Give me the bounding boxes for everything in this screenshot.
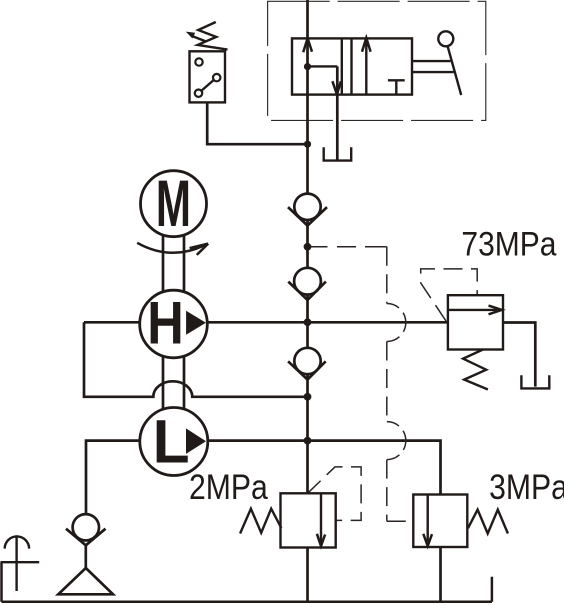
wire: main line below 2MPa valve <box>306 548 309 602</box>
node: pressure switch junction <box>304 141 311 148</box>
svg-text:H: H <box>147 290 184 357</box>
motor M <box>141 171 207 237</box>
node: H line junction <box>304 318 312 326</box>
suction strainer <box>58 568 113 594</box>
pressure switch electric zigzag arrow <box>198 22 228 50</box>
wire: 3MPa valve drain <box>439 547 442 602</box>
wire: L pump suction line <box>86 441 140 515</box>
tank symbol at 73MPa outlet <box>521 375 549 388</box>
pressure switch PS <box>190 51 226 102</box>
valve position 2: blocked port T <box>388 80 405 94</box>
wire: pressure switch drop line <box>207 102 307 144</box>
lever actuator <box>412 61 454 72</box>
pump H (high pressure) <box>140 290 208 358</box>
node: H loop junction <box>304 393 312 401</box>
tank symbol under valve <box>324 147 352 160</box>
pilot line (dashed) of 2MPa valve <box>307 467 361 521</box>
valve position 2: up arrow <box>365 40 367 95</box>
wire: check valve to strainer <box>84 545 87 568</box>
svg-text:M: M <box>156 166 191 240</box>
svg-text:L: L <box>153 408 190 476</box>
wire: H pump outlet to main line and 73MPa valve inlet <box>84 321 448 324</box>
node: pilot branch junction <box>304 243 312 251</box>
svg-text:73MPa: 73MPa <box>461 226 557 264</box>
node: junction in valve <box>304 63 311 70</box>
spring of 2MPa valve <box>240 509 281 534</box>
svg-text:2MPa: 2MPa <box>189 468 268 507</box>
wire: 73MPa valve outlet <box>503 323 535 387</box>
valve position 1: up arrow head <box>303 38 312 52</box>
directional valve V1 (2-position, lever operated) <box>292 38 412 94</box>
wire: H pump left loop with crossover hump <box>84 322 308 397</box>
check valve 1 (top, on main line) <box>294 194 320 220</box>
spring of 73MPa valve <box>463 350 488 390</box>
pilot line jump arc over L line <box>387 422 406 460</box>
motor rotation arrow <box>137 243 204 253</box>
pilot line (dashed) from main line to 3MPa valve <box>311 247 413 522</box>
node: L line junction <box>304 437 312 445</box>
pilot line jump arc over H line <box>387 304 406 342</box>
tank outline <box>2 562 492 602</box>
check valve 3 (on main line) <box>294 348 320 374</box>
shaft H-L <box>163 350 184 416</box>
shaft M-H <box>163 228 184 300</box>
relief valve 3MPa <box>413 495 467 548</box>
check valve 2 (on main line) <box>294 268 321 295</box>
svg-text:3MPa: 3MPa <box>489 468 564 507</box>
pilot line (dashed) of 73MPa valve <box>421 269 478 321</box>
spring of 3MPa valve <box>468 510 508 534</box>
relief valve 2MPa <box>281 493 336 547</box>
wire: L pump outlet to main line and 3MPa valve <box>206 441 441 495</box>
air breather <box>5 536 29 548</box>
pump L (low pressure) <box>140 408 208 476</box>
relief valve 73MPa <box>448 295 503 349</box>
check valve 4 (suction line) <box>73 514 99 540</box>
wire: main pressure line (vertical) <box>306 0 309 493</box>
valve branch to drain with arrow <box>308 65 338 67</box>
wire: directional valve drain to tank <box>336 66 339 159</box>
enclosure (dashed assembly boundary) <box>268 1 486 120</box>
